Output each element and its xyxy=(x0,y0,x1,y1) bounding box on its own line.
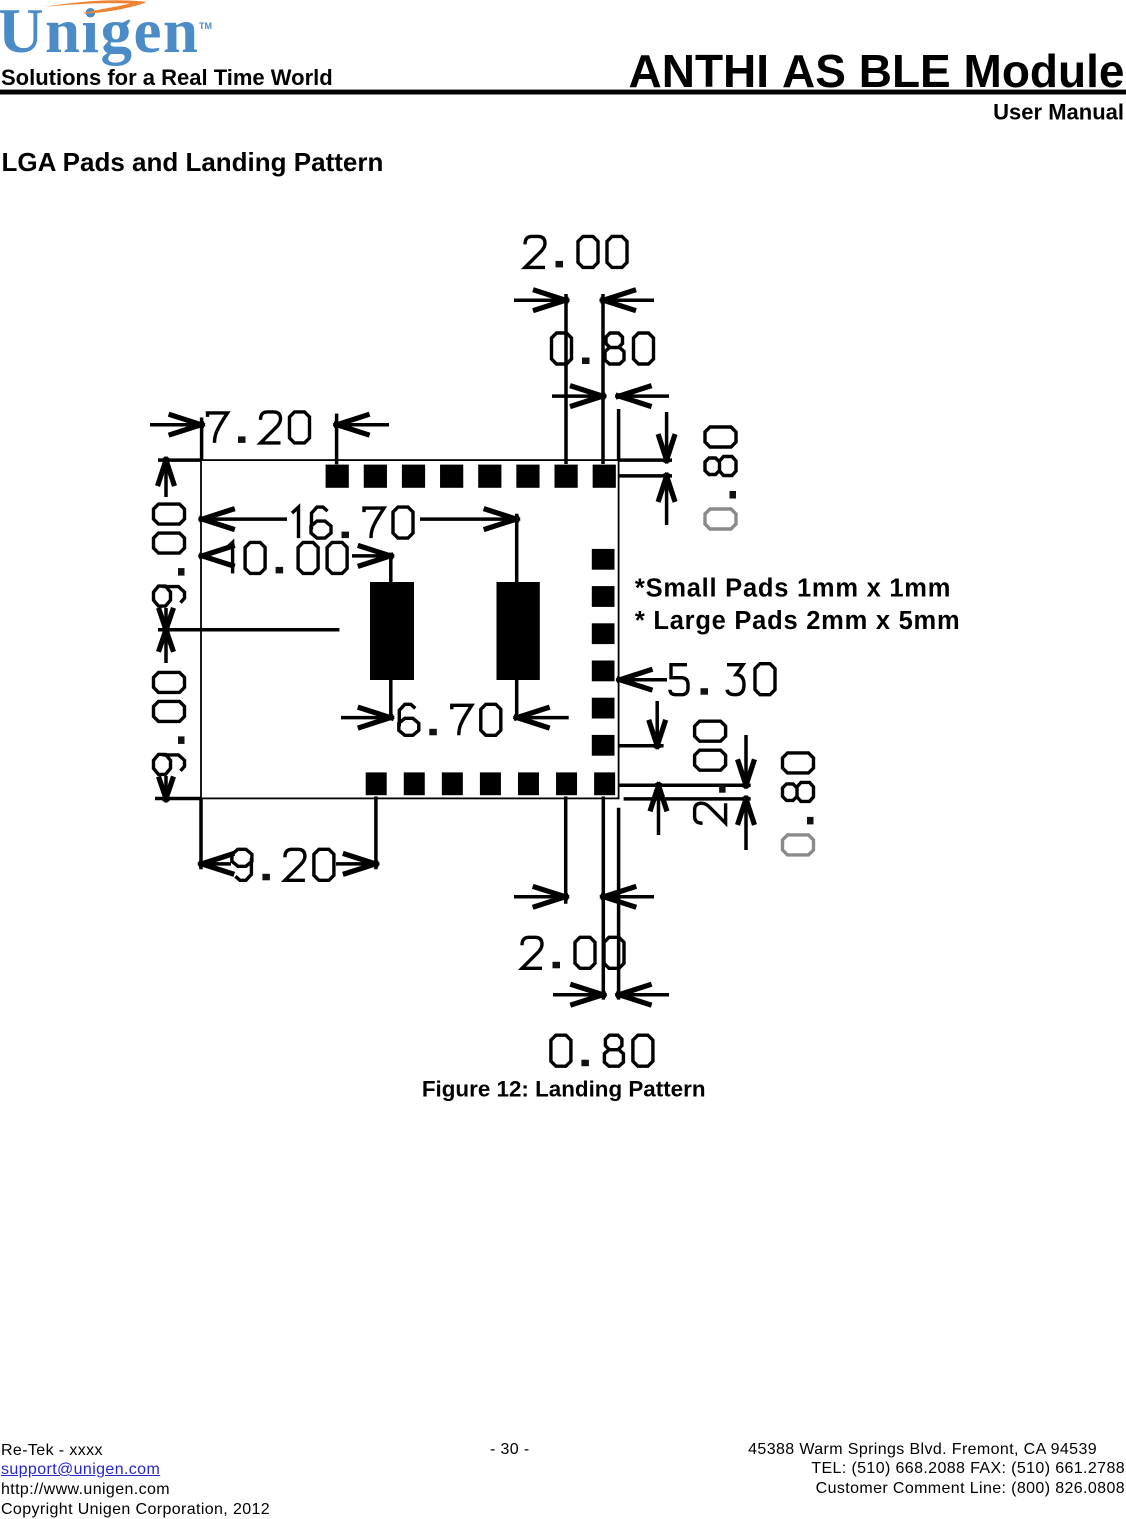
right pad 1 xyxy=(592,549,615,570)
dim arrow 2.00 bottom right xyxy=(603,895,654,899)
dim text 10.00 xyxy=(226,542,347,573)
extension line large pad P2 center lower xyxy=(515,680,519,720)
bottom pad 5 xyxy=(518,772,539,795)
extension line bottom pad7 center xyxy=(602,797,606,1000)
technical drawing: LGA landing pattern figure xyxy=(0,0,1126,1120)
bottom pad 7 xyxy=(594,772,615,795)
dim text 9.00 upper (rotated) xyxy=(154,504,185,606)
extension line top pad7 center xyxy=(564,294,568,464)
dim arrow 16.70 right xyxy=(420,517,517,521)
dim arrow 10.00 left xyxy=(199,545,235,566)
dim arrow 2.00 right upper xyxy=(655,701,659,746)
module mid reference line xyxy=(158,628,339,632)
dim arrow 0.80 right lower lower xyxy=(744,799,748,850)
top pad 5 xyxy=(478,465,501,488)
top pad 7 xyxy=(555,465,578,488)
dim arrow 0.80 bottom right xyxy=(619,993,669,997)
extension module bottom edge right xyxy=(624,797,751,801)
leader arrow 5.30 xyxy=(620,678,668,682)
extension line module right edge below xyxy=(617,808,621,1000)
dim text 9.20 xyxy=(232,849,334,880)
extension module top edge right xyxy=(619,458,672,462)
extension line module right edge above top xyxy=(617,409,621,460)
dim arrow 9.00 upper bottom xyxy=(164,608,168,630)
extension top pad center right xyxy=(619,474,672,478)
extension right pad6 center xyxy=(619,744,664,748)
bottom pad 6 xyxy=(556,772,577,795)
svg-text:* Large Pads 2mm x 5mm: * Large Pads 2mm x 5mm xyxy=(635,607,960,635)
bottom pad 4 xyxy=(480,772,501,795)
extension module left edge below bottom xyxy=(199,798,203,869)
dim arrow 7.20 left xyxy=(150,423,202,427)
footer right column line 2 xyxy=(811,1460,1125,1478)
svg-text:Figure 12: Landing Pattern: Figure 12: Landing Pattern xyxy=(422,1077,706,1102)
dim arrow 9.00 lower top xyxy=(164,630,168,663)
dim text 0.80 bottom xyxy=(551,1035,653,1066)
large pad P1 xyxy=(370,582,414,680)
extension line large pad P1 center upper xyxy=(389,553,393,582)
top pad 6 xyxy=(516,465,539,488)
extension line top pad8 center xyxy=(601,294,605,464)
dim text 0.80 right-bottom (rotated) xyxy=(783,753,814,855)
dim text 6.70 xyxy=(399,704,501,735)
extension line top pad1 center xyxy=(335,414,339,465)
dim arrow 2.00 top right xyxy=(603,298,654,302)
dim arrow 7.20 right xyxy=(337,423,389,427)
dim text 2.00 top xyxy=(525,236,627,267)
dim text 0.80 top xyxy=(552,333,654,364)
footer right column line 1 xyxy=(748,1441,1097,1459)
extension module bottom edge left xyxy=(155,797,201,801)
dim arrow 6.70 left xyxy=(341,716,391,720)
large pad P2 xyxy=(497,582,540,680)
top pad 3 xyxy=(402,465,425,488)
dim arrow 0.80 right-top lower xyxy=(665,476,669,525)
top pad 4 xyxy=(440,465,463,488)
dim arrow 0.80 top right xyxy=(619,394,669,398)
extension line large pad P2 center upper xyxy=(515,514,519,582)
dim arrow 9.20 left xyxy=(201,862,231,866)
dim arrow 2.00 right lower xyxy=(657,785,661,835)
dim arrow 0.80 top left xyxy=(552,394,603,398)
right pad 6 xyxy=(592,735,615,756)
extension module top edge left xyxy=(158,458,201,462)
extension line bottom pad6 center xyxy=(564,797,568,904)
header rule xyxy=(0,90,1126,95)
top pad 8 xyxy=(593,465,616,488)
dim arrow 9.00 lower bottom xyxy=(164,776,168,799)
dim text 9.00 lower (rotated) xyxy=(154,672,185,774)
right pad 4 xyxy=(592,661,615,682)
extension line bottom pad1 center xyxy=(374,797,378,870)
svg-text:*Small Pads 1mm x 1mm: *Small Pads 1mm x 1mm xyxy=(635,574,951,602)
Unigen logo swoosh xyxy=(43,0,146,13)
dim text 16.70 xyxy=(292,507,413,538)
bottom pad 2 xyxy=(404,772,425,795)
footer left column xyxy=(1,1441,270,1519)
dim arrow 0.80 right lower upper xyxy=(744,735,748,785)
dim text 2.00 bottom xyxy=(522,937,624,968)
right pad 5 xyxy=(592,698,615,719)
top pad 1 xyxy=(326,465,349,488)
dim text 0.80 right-top (rotated) xyxy=(705,427,736,529)
dim arrow 16.70 left xyxy=(202,517,287,521)
bottom pad 3 xyxy=(442,772,463,795)
dim arrow 2.00 bottom left xyxy=(514,895,566,899)
dim arrow 9.00 upper top xyxy=(164,460,168,497)
dim text 2.00 right (rotated) xyxy=(695,721,726,823)
dim text 7.20 xyxy=(208,412,310,443)
top pad 2 xyxy=(364,465,387,488)
dim arrow 9.20 right xyxy=(336,862,376,866)
extension line large pad P1 center lower xyxy=(389,680,393,720)
right pad 2 xyxy=(592,586,615,607)
footer page number xyxy=(490,1441,530,1459)
dim arrow 0.80 right-top upper xyxy=(665,412,669,460)
dim arrow 6.70 right xyxy=(517,716,569,720)
right pad 3 xyxy=(592,623,615,644)
dim arrow 10.00 right xyxy=(352,554,391,558)
module outline rectangle xyxy=(201,460,619,798)
dim text 5.30 xyxy=(670,664,775,695)
bottom pad 1 xyxy=(366,772,387,795)
dim arrow 0.80 bottom left xyxy=(553,993,603,997)
extension bottom pad center right xyxy=(619,784,751,788)
dim arrow 2.00 top left xyxy=(514,298,566,302)
footer right column line 3 xyxy=(816,1480,1125,1498)
extension line module left edge above top xyxy=(200,418,204,461)
